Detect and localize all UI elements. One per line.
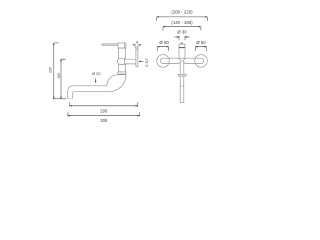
arrow: dim 140-160 right xyxy=(199,26,201,27)
right arm with cone xyxy=(183,58,204,63)
arrow: dim 305 right xyxy=(137,115,139,116)
arrow: dim 295 left xyxy=(70,105,72,106)
arrow: dim 4 right xyxy=(138,44,140,45)
dim (200-220) xyxy=(157,17,208,21)
svg-text:(140 - 160): (140 - 160) xyxy=(171,20,193,25)
front view labels xyxy=(159,9,206,45)
arrow: dim 165 top xyxy=(60,59,61,61)
dim (140-160) xyxy=(163,27,201,31)
arrowheads side view xyxy=(53,43,141,117)
arrowheads front view xyxy=(157,16,208,47)
svg-text:165: 165 xyxy=(57,73,61,79)
body cap xyxy=(118,43,126,48)
union nut xyxy=(117,58,124,64)
bottom cap xyxy=(178,74,186,76)
dim 165 vertical xyxy=(61,59,66,99)
dim 4 (flange thickness) xyxy=(132,45,141,49)
arrow: dim 305 left xyxy=(68,115,70,116)
arrow: dim 165 bottom xyxy=(60,97,61,99)
svg-text:Ø 60: Ø 60 xyxy=(196,40,206,45)
svg-text:Ø 60: Ø 60 xyxy=(159,40,169,45)
svg-text:230: 230 xyxy=(48,67,52,73)
svg-text:295: 295 xyxy=(100,108,108,113)
G 1/2 leader arrow xyxy=(139,60,144,62)
arrow: dim 295 right xyxy=(136,105,138,106)
arrow: dim dia30 right xyxy=(185,36,187,37)
side view labels xyxy=(48,40,149,124)
pipe joint mark xyxy=(180,86,184,87)
right escutcheon circle xyxy=(195,55,208,68)
dim 305 xyxy=(68,112,140,116)
arrow: dia 20 leader xyxy=(95,81,96,83)
arrow: dim 230 top xyxy=(53,43,54,45)
dim 295 xyxy=(70,102,138,106)
svg-text:4: 4 xyxy=(136,40,139,45)
dim dia60 right xyxy=(195,47,206,51)
dim dia60 left xyxy=(157,47,168,51)
lever handle xyxy=(102,44,119,46)
wall flange xyxy=(136,50,138,67)
arrow: dim dia30 left xyxy=(177,36,179,37)
collar xyxy=(118,72,126,75)
neck xyxy=(180,62,184,74)
top notch xyxy=(181,43,183,44)
body joint dark band xyxy=(179,47,185,49)
arrow: dim 140-160 left xyxy=(163,26,165,27)
arrow: dim 230 bottom xyxy=(53,97,54,99)
dim 230 vertical xyxy=(54,43,59,99)
spout xyxy=(68,75,126,99)
dim dia30 xyxy=(174,36,189,41)
down pipe xyxy=(180,76,184,102)
arrow: dim 200-220 right xyxy=(205,16,207,17)
dia20 leader arrow xyxy=(95,78,97,82)
arrow: dim dia60-left right xyxy=(167,46,169,47)
spout tip opening xyxy=(68,98,73,100)
left escutcheon circle xyxy=(157,55,170,68)
svg-text:G 1/2": G 1/2" xyxy=(145,58,149,67)
body column xyxy=(119,48,126,72)
arrow: dim 4 left xyxy=(134,44,136,45)
svg-text:(200 - 220): (200 - 220) xyxy=(171,9,193,14)
collar joint dark band xyxy=(118,73,126,75)
svg-text:Ø 20: Ø 20 xyxy=(92,71,101,76)
central body column xyxy=(179,44,185,58)
bottom extension line xyxy=(53,98,67,100)
supply pipe xyxy=(124,59,136,64)
arrow: dim dia60-right left xyxy=(195,46,197,47)
arrow: dim dia60-right right xyxy=(205,46,207,47)
left arm with cone xyxy=(160,58,181,63)
svg-text:305: 305 xyxy=(100,118,108,123)
svg-text:Ø 30: Ø 30 xyxy=(177,30,187,35)
arrow: G 1/2 leader xyxy=(139,61,141,62)
arrow: dim 200-220 left xyxy=(157,16,159,17)
arrow: dim dia60-left left xyxy=(157,46,159,47)
